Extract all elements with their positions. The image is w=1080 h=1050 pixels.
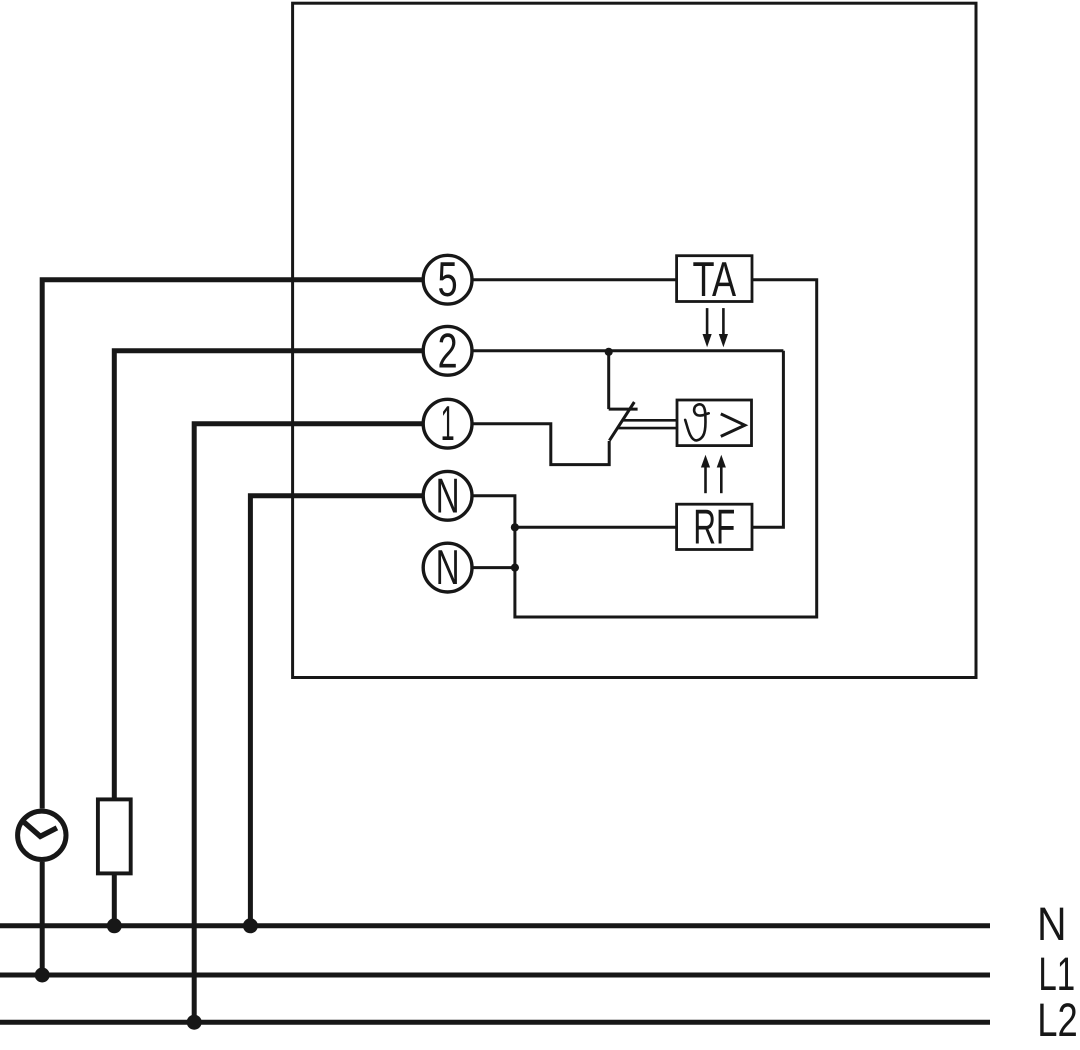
svg-text:5: 5 <box>438 253 458 307</box>
svg-text:RF: RF <box>693 501 735 555</box>
svg-text:L2: L2 <box>1037 993 1078 1046</box>
svg-text:N: N <box>436 469 460 523</box>
svg-text:N: N <box>1037 897 1067 950</box>
svg-text:N: N <box>436 541 460 595</box>
svg-text:2: 2 <box>438 324 458 378</box>
svg-text:TA: TA <box>693 253 737 307</box>
svg-text:1: 1 <box>441 397 455 451</box>
